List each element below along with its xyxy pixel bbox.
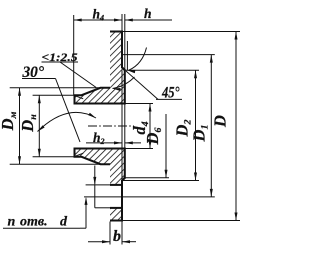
thin vertical stub near face x=127.4 — [126, 41, 128, 70]
hole bottom edge extension to left — [95, 207, 110, 209]
dimension line h — [125, 19, 172, 22]
angle annotation 30deg with underline and leader — [22, 64, 80, 142]
flange lower half section (hatched cut area) — [75, 149, 125, 221]
svg-text:h: h — [144, 6, 152, 21]
outline of lower half section — [75, 149, 125, 221]
horizontal centre axis (dash-dot) — [88, 125, 134, 127]
dimension line D2 — [194, 70, 197, 180]
dimension line h2 left part — [86, 141, 122, 144]
dimension line Dn — [38, 95, 41, 157]
extension line x=110 below plate for b — [109, 222, 111, 245]
bolt hole upper edge — [110, 184, 122, 186]
extension line x=124.8 above plate for h — [124, 14, 126, 70]
label Dm — [0, 111, 19, 131]
30deg angle arc with arrows — [38, 112, 97, 131]
dimension line b left — [88, 240, 110, 243]
extension line y=164.2 for Dm (bottom) — [10, 163, 101, 165]
dimension line d4 — [149, 104, 152, 149]
dimension line b right — [122, 240, 136, 243]
angle annotation 45deg with underline and leader — [126, 71, 182, 102]
svg-text:отв.: отв. — [20, 215, 48, 230]
45deg curved leader upper arc — [127, 48, 146, 74]
extension line y=54.6 for D1 (top) — [122, 54, 215, 56]
outline of upper half section — [75, 32, 125, 104]
hole diameter d outside dimension: upper tail with arrow — [93, 166, 96, 185]
dimension line h4 — [74, 19, 122, 22]
thin line of flange front face across bore — [121, 70, 123, 180]
label D6 — [143, 128, 164, 146]
extension line y=31.5 for D (top) — [122, 31, 240, 33]
label h2 — [93, 130, 105, 146]
label b — [113, 228, 121, 245]
label d4 — [130, 121, 151, 134]
dimension line Dm — [18, 88, 21, 164]
hole diameter d: line across hole — [94, 185, 96, 208]
weld bevel edge top (thin) — [75, 96, 83, 99]
dimension line D — [235, 32, 238, 221]
dimension line D1 — [210, 55, 213, 197]
label n otv. d with underline — [3, 215, 80, 230]
dimension line D6 — [165, 114, 168, 178]
extension line x=122 above plate for h4/h — [121, 14, 123, 32]
extension line y=87.8 for Dm (top) — [10, 87, 101, 89]
extension line y=156.8 for Dn (bottom) — [33, 156, 82, 158]
label D2 — [173, 120, 194, 138]
extension line y=148 for d4 (bottom, bore) — [125, 148, 153, 150]
hole top edge extension to left — [86, 184, 110, 186]
chamfer 45deg top on face — [122, 67, 126, 71]
extension line y=70.3 for D2 (top) — [125, 69, 199, 71]
svg-text:b: b — [113, 228, 121, 245]
svg-text:D: D — [210, 115, 229, 128]
chamfer 45deg bottom on face — [122, 177, 126, 181]
45deg curved leader lower arc — [113, 77, 135, 91]
extension line x=122 below plate for b — [121, 222, 123, 245]
extension line y=220.5 for D (bottom) — [122, 220, 240, 222]
label h — [144, 6, 152, 21]
extension line x=74.5 for h4 (hub end face extended up) — [73, 15, 75, 95]
svg-text:d: d — [60, 215, 68, 230]
thin line of boss front face across bore — [124, 104, 126, 149]
bolt hole lower edge — [110, 207, 122, 209]
extension line y=196.9 bolt hole axis to D1 — [84, 196, 215, 198]
extension line y=104 for d4 (top, bore) — [125, 103, 153, 105]
leader from label to bolt hole axis — [80, 197, 88, 228]
extension line y=177.7 for D6 (boss bottom edge) — [125, 177, 169, 179]
dimension line h2 right part — [125, 141, 141, 144]
weld bevel edge bottom (thin) — [75, 153, 83, 156]
label h4 — [93, 6, 105, 22]
extension line y=95.2 for Dn (top) — [33, 94, 82, 96]
flange upper half section (hatched cut area) — [75, 32, 125, 104]
bolt hole cut-out (white, not hatched) — [110, 185, 123, 208]
label Dn — [18, 114, 39, 133]
extension line y=180.5 for D2 (bottom) — [122, 180, 199, 182]
label D — [210, 115, 229, 128]
label D1 — [189, 125, 210, 143]
svg-text:n: n — [8, 215, 16, 230]
taper annotation <1:2.5 with underline and leader — [42, 52, 97, 88]
